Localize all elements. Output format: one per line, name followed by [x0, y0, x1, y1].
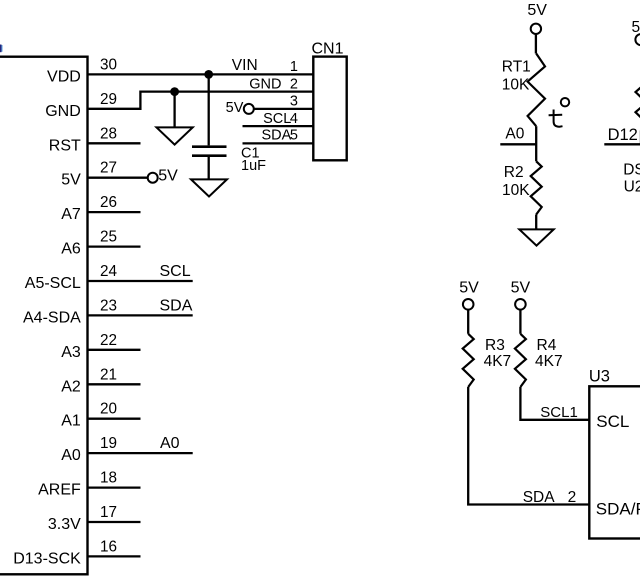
- svg-text:2: 2: [290, 77, 298, 93]
- svg-text:29: 29: [100, 91, 117, 108]
- net label VIN: [232, 57, 258, 74]
- pin 20 A1: [61, 401, 140, 430]
- svg-text:28: 28: [100, 125, 117, 142]
- U3 pin SCL label: [596, 412, 629, 431]
- svg-text:RT1: RT1: [502, 58, 531, 75]
- net label SCL: [160, 263, 191, 280]
- svg-text:5V: 5V: [511, 279, 531, 296]
- wire 5V to R3: [467, 310, 469, 334]
- svg-text:A6: A6: [61, 241, 81, 258]
- svg-text:5V: 5V: [527, 2, 547, 19]
- pin 19 A0: [61, 435, 117, 464]
- svg-text:SCL: SCL: [596, 412, 629, 431]
- svg-text:GND: GND: [45, 103, 81, 120]
- thermistor t-degree symbol: [549, 98, 570, 127]
- svg-text:R4: R4: [537, 337, 557, 354]
- wire R3 to SDA net: [468, 387, 589, 505]
- node junction on GND net: [170, 87, 179, 96]
- svg-text:A3: A3: [61, 344, 81, 361]
- CN1 pin 4 / net SCL: [243, 111, 314, 127]
- supply 5V CN1 pin3: [226, 100, 254, 116]
- svg-text:19: 19: [100, 435, 117, 452]
- svg-text:10K: 10K: [502, 76, 530, 93]
- pin 26 A7: [61, 194, 140, 223]
- wire SCL net stub: [88, 280, 193, 282]
- pin 23 A4-SDA: [23, 297, 117, 326]
- svg-text:D13-SCK: D13-SCK: [13, 550, 81, 567]
- svg-text:5V: 5V: [459, 279, 479, 296]
- CN1 pin 1: [290, 59, 298, 75]
- supply 5V for R3: [459, 279, 479, 309]
- svg-text:24: 24: [100, 263, 118, 280]
- svg-text:SCL: SCL: [160, 263, 191, 280]
- svg-text:A0: A0: [505, 126, 524, 143]
- svg-text:GND: GND: [249, 77, 281, 93]
- svg-text:AREF: AREF: [38, 482, 81, 499]
- CN1 pin 2 label GND: [249, 77, 298, 93]
- net label SDA: [160, 297, 193, 314]
- svg-text:A0: A0: [160, 435, 180, 452]
- net label SDA / pin 2 of U3: [523, 489, 577, 506]
- svg-text:1uF: 1uF: [241, 158, 266, 174]
- RT1 value labels: [502, 58, 531, 93]
- capacitor C1: [192, 74, 227, 179]
- pin 28 RST: [49, 125, 141, 154]
- CN1 pin 3: [290, 94, 298, 110]
- thermistor RT1: [528, 54, 545, 127]
- svg-text:21: 21: [100, 366, 117, 383]
- CN1 pin 5 / net SDA: [243, 128, 314, 144]
- wire A0 net stub: [88, 452, 193, 454]
- resistor R1 (clipped at right edge): [636, 77, 640, 130]
- wire VDD / VIN net (pin30 to CN1 pin1): [88, 73, 314, 75]
- svg-text:A5-SCL: A5-SCL: [25, 275, 81, 292]
- net label A0: [505, 126, 524, 143]
- pin 17 3.3V: [48, 504, 141, 533]
- sensor U2 DS18B20 labels (clipped): [623, 162, 640, 196]
- pin 21 A2: [61, 366, 140, 395]
- svg-text:U3: U3: [589, 367, 610, 385]
- R2 value labels: [502, 164, 530, 199]
- supply 5V pin27: [148, 167, 178, 184]
- svg-text:4: 4: [290, 111, 298, 127]
- net label SCL / pin 1 of U3: [540, 404, 578, 421]
- U3 pin SDA/PWM label: [596, 500, 640, 519]
- svg-text:A7: A7: [61, 206, 81, 223]
- IC U3 (clipped at right edge): [589, 367, 640, 538]
- wire R4 to SCL net: [520, 387, 589, 420]
- svg-text:5V: 5V: [158, 167, 178, 184]
- svg-text:R3: R3: [485, 337, 505, 354]
- resistor R3: [463, 334, 474, 387]
- svg-text:4K7: 4K7: [484, 353, 512, 370]
- svg-text:SCL: SCL: [263, 111, 291, 127]
- svg-text:22: 22: [100, 332, 117, 349]
- svg-text:17: 17: [100, 504, 117, 521]
- svg-text:27: 27: [100, 160, 117, 177]
- IC U1 (Arduino module, left, clipped): [0, 57, 88, 575]
- R4 value labels: [535, 337, 563, 370]
- net label A0: [160, 435, 180, 452]
- svg-text:CN1: CN1: [312, 41, 344, 58]
- svg-text:VIN: VIN: [232, 57, 258, 74]
- pin 25 A6: [61, 229, 140, 258]
- wire D12 net stub: [604, 143, 640, 145]
- svg-text:SDA: SDA: [261, 128, 291, 144]
- wire to ground symbol: [173, 92, 175, 128]
- svg-text:D12: D12: [608, 126, 638, 144]
- wire GND net (pin29 to CN1 pin2): [88, 92, 314, 109]
- svg-text:SDA/PWM: SDA/PWM: [596, 500, 640, 519]
- resistor R4: [515, 334, 526, 387]
- svg-text:5V: 5V: [226, 100, 244, 116]
- svg-text:18: 18: [100, 470, 117, 487]
- node junction on VIN net: [204, 70, 213, 79]
- svg-text:SCL1: SCL1: [540, 404, 578, 421]
- svg-text:U2: U2: [624, 179, 640, 196]
- svg-text:DS18B20: DS18B20: [623, 162, 640, 179]
- svg-text:5: 5: [290, 128, 298, 144]
- pin 29 GND label: [45, 91, 117, 120]
- svg-text:A2: A2: [61, 378, 81, 395]
- ground: [157, 127, 193, 144]
- svg-text:20: 20: [100, 401, 117, 418]
- svg-text:16: 16: [100, 538, 117, 555]
- wire RT1 to R2 (A0 node): [535, 126, 537, 161]
- pin 16 D13-SCK: [13, 538, 140, 567]
- connector CN1: [312, 41, 347, 161]
- net label D12: [608, 126, 638, 144]
- supply 5V for R4: [511, 279, 531, 309]
- R3 value labels: [484, 337, 512, 370]
- supply 5V for RT1: [527, 2, 547, 34]
- svg-text:23: 23: [100, 297, 117, 314]
- ground under R2: [519, 229, 553, 245]
- pin 24 A5-SCL: [25, 263, 118, 292]
- svg-text:RST: RST: [49, 137, 81, 154]
- supply 5V for R1 (clipped at right edge): [632, 19, 640, 45]
- wire SDA net stub: [88, 314, 193, 316]
- C1 value label: [241, 145, 266, 174]
- wire R2 to ground: [535, 215, 537, 230]
- svg-text:2: 2: [568, 489, 577, 506]
- wire A0 net stub: [500, 143, 536, 145]
- blue name fragment (clipped at left edge): [0, 45, 3, 53]
- ground under C1: [191, 179, 227, 196]
- svg-text:25: 25: [100, 229, 117, 246]
- wire 5V to R4: [519, 310, 521, 334]
- svg-text:VDD: VDD: [47, 68, 81, 85]
- wire CN1 pin3: [254, 108, 313, 110]
- svg-text:SDA: SDA: [160, 297, 193, 314]
- svg-text:A1: A1: [61, 413, 81, 430]
- svg-text:A4-SDA: A4-SDA: [23, 309, 81, 326]
- svg-text:4K7: 4K7: [535, 353, 563, 370]
- svg-text:10K: 10K: [502, 182, 530, 199]
- svg-text:3: 3: [290, 94, 298, 110]
- resistor R2: [531, 161, 542, 214]
- svg-text:A0: A0: [61, 447, 81, 464]
- pin 30 VDD label: [47, 56, 117, 85]
- wire 5V to RT1: [535, 34, 537, 54]
- svg-text:30: 30: [100, 56, 117, 73]
- svg-text:26: 26: [100, 194, 117, 211]
- pin 27 5V: [61, 160, 147, 189]
- svg-text:1: 1: [290, 59, 298, 75]
- svg-text:5V: 5V: [61, 172, 81, 189]
- svg-text:SDA: SDA: [523, 489, 556, 506]
- pin 18 AREF: [38, 470, 140, 499]
- svg-text:3.3V: 3.3V: [48, 516, 81, 533]
- pin 22 A3: [61, 332, 140, 361]
- svg-text:R2: R2: [504, 164, 524, 181]
